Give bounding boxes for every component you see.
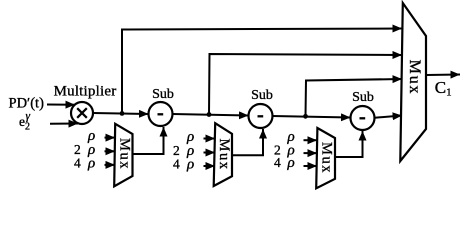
mux M2 [214,123,232,186]
wire rho to mux M2 [204,138,216,140]
wire rho to mux M3 [304,139,318,141]
svg-text:Sub: Sub [152,87,174,102]
svg-text:PD′(t): PD′(t) [9,95,45,111]
svg-text:4: 4 [74,156,81,171]
wire 4rho to mux M1 [105,164,116,166]
wire Sub2 to Sub3 [273,116,351,118]
svg-text:Mux: Mux [216,139,232,171]
multiplier U1 [71,102,93,124]
svg-text:ρ: ρ [87,156,95,172]
wire mux M2 to Sub2 [232,129,263,155]
mux M1 [114,124,132,187]
svg-text:Sub: Sub [352,90,374,105]
wire node C to output mux (top line 3) [306,79,403,116]
svg-text:4: 4 [173,157,180,172]
svg-text:ρ: ρ [186,157,194,173]
wire 4rho to mux M2 [204,165,216,167]
wire mux M3 to Sub3 [335,131,363,157]
wire rho to mux M1 [105,137,116,139]
wire mux M1 to Sub1 [133,127,164,154]
wire e2 to multiplier [50,123,78,125]
wire PD'(t) to multiplier [47,104,75,106]
subtractor Sub3 [351,106,375,130]
wire node A to output mux (top line 1) [122,29,402,114]
mux M3 [316,128,335,188]
subtractor Sub1 [149,102,173,126]
svg-text:Mux: Mux [319,142,335,174]
junction node C [303,114,308,119]
wire 2rho to mux M2 [204,152,216,154]
subtractor Sub2 [249,104,273,128]
junction node A [120,111,125,116]
svg-text:Mux: Mux [406,60,423,96]
wire 2rho to mux M3 [304,152,318,154]
wire 2rho to mux M1 [105,150,116,152]
svg-text:ρ: ρ [287,155,295,171]
svg-text:Mux: Mux [117,138,133,170]
svg-text:4: 4 [274,155,281,170]
wire Sub1 to Sub2 [173,114,249,116]
svg-text:C1: C1 [435,78,452,99]
mux U5 (output mux) [400,3,426,161]
svg-text:e2γ: e2γ [19,111,31,133]
wire multiplier to Sub1 [93,113,149,114]
wire 4rho to mux M3 [304,165,318,167]
wire output mux to C1 [427,74,461,77]
junction node B [207,112,212,117]
wire node B to output mux (top line 2) [209,54,402,115]
svg-text:Multiplier: Multiplier [54,84,117,100]
wire Sub3 to output mux [375,116,403,118]
svg-text:Sub: Sub [251,88,273,103]
